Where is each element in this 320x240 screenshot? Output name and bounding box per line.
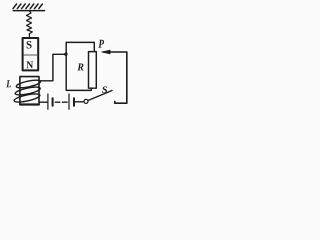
switch S lever <box>88 91 112 101</box>
node junction dot <box>64 53 67 56</box>
fixed support ceiling line <box>13 10 44 12</box>
dashed wire between cells <box>55 101 67 103</box>
coil bottom edge <box>20 103 39 105</box>
magnet pole label S <box>27 41 32 49</box>
support hatching <box>13 4 42 9</box>
wire coil bottom to battery <box>39 101 47 103</box>
switch S pivot <box>84 99 88 103</box>
coil turn 2 <box>15 86 41 97</box>
coil turn 3 <box>13 92 40 103</box>
slider arrow P <box>103 51 127 53</box>
magnet pole divider <box>24 54 38 56</box>
wire node down, elbow to rheostat bottom <box>66 54 91 90</box>
battery cell 2 long plate <box>68 94 70 109</box>
wire battery to switch <box>75 101 84 103</box>
rheostat label R <box>77 64 83 71</box>
wire node up, top wire, down to rheostat top <box>66 42 94 54</box>
spring <box>27 11 33 38</box>
slider label P <box>98 40 104 48</box>
coil L body <box>20 77 39 105</box>
switch label S <box>102 87 107 93</box>
wire right side down to bottom <box>115 52 127 103</box>
battery cell 1 short plate <box>52 98 54 106</box>
battery cell 1 long plate <box>47 94 49 109</box>
coil label L <box>6 80 11 87</box>
magnet pole label N <box>27 61 34 68</box>
battery cell 2 short plate <box>73 98 75 106</box>
resistor R (rheostat body) <box>89 52 97 89</box>
wire coil top lead to node <box>40 54 66 81</box>
coil turn 1 <box>16 79 41 90</box>
magnet body <box>23 38 39 70</box>
